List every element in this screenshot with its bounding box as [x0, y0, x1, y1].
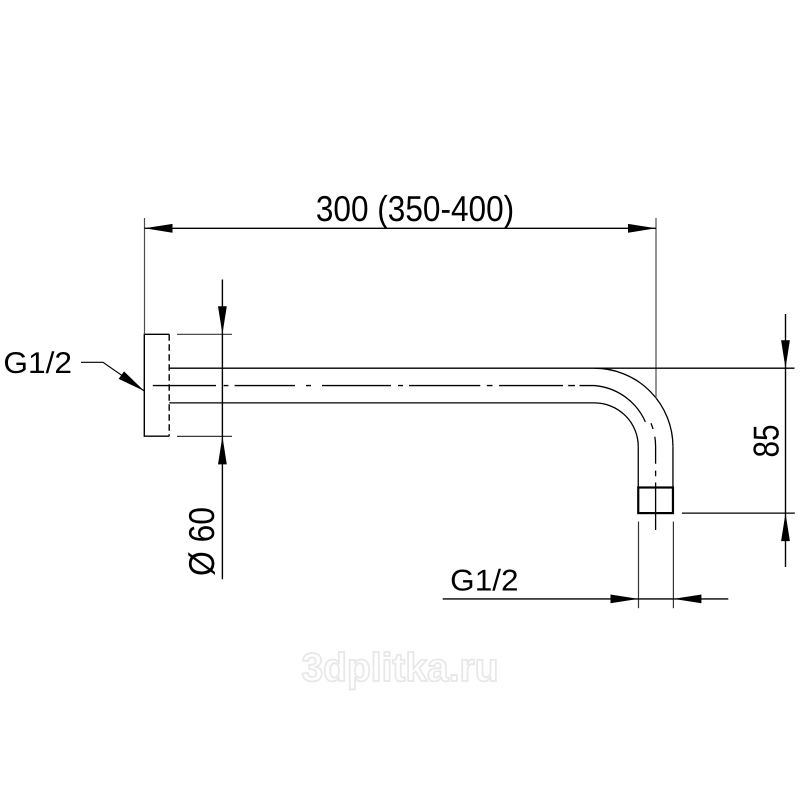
- svg-text:G1/2: G1/2: [450, 565, 518, 598]
- dim G1/2 bottom: right extension line: [672, 522, 674, 609]
- G1/2 nipple fitting at tube end: [638, 488, 673, 514]
- dim G1/2 bottom: left extension line: [638, 522, 640, 609]
- dim 85: dimension line: [785, 314, 787, 567]
- G1/2 leader line: [81, 362, 144, 391]
- svg-text:85: 85: [746, 424, 787, 457]
- wall flange outline (side view): [144, 334, 169, 436]
- dim G1/2 bottom: left arrowhead (points right): [611, 595, 639, 604]
- dim G1/2 bottom: right arrowhead (points left): [673, 595, 701, 604]
- svg-text:300 (350-400): 300 (350-400): [316, 188, 514, 229]
- tube centerline vertical dash-dot segments: [655, 471, 657, 530]
- tube bottom edge: [169, 402, 594, 404]
- dim 85: bottom extension line: [682, 512, 795, 514]
- flange hidden edge (dashed): [168, 334, 170, 436]
- dim 300: left arrowhead: [145, 224, 173, 233]
- dim 85: upper arrowhead: [781, 340, 790, 368]
- tube centerline horizontal dash-dot segments: [153, 385, 575, 387]
- dim 85: top extension line (tube top edge extended): [595, 367, 795, 369]
- dim 300: dimension line: [145, 227, 657, 229]
- tube centerline bend arc dash-dot segments: [580, 386, 656, 464]
- tube inner bend arc: [595, 403, 639, 447]
- dim 300: right arrowhead: [628, 224, 656, 233]
- dim Ø60: lower arrowhead: [218, 436, 227, 464]
- dim 85: lower arrowhead: [781, 513, 790, 541]
- G1/2 leader arrowhead: [119, 371, 145, 391]
- vertical tube left edge: [637, 447, 639, 488]
- svg-text:Ø 60: Ø 60: [181, 507, 222, 576]
- tube outer bend arc: [595, 368, 673, 446]
- dim G1/2 bottom: dimension line: [443, 598, 729, 600]
- dim Ø60: top extension line: [177, 333, 232, 335]
- dim Ø60: upper arrowhead: [218, 306, 227, 334]
- dim 300: right extension line: [655, 218, 657, 398]
- dim Ø60: bottom extension line: [177, 435, 232, 437]
- svg-text:G1/2: G1/2: [3, 347, 72, 380]
- tube top edge: [169, 367, 594, 369]
- vertical tube right edge: [672, 447, 674, 488]
- dim 300: left extension line: [144, 218, 146, 334]
- svg-text:3dplitka.ru: 3dplitka.ru: [302, 646, 499, 690]
- dim Ø60: dimension line: [221, 280, 223, 580]
